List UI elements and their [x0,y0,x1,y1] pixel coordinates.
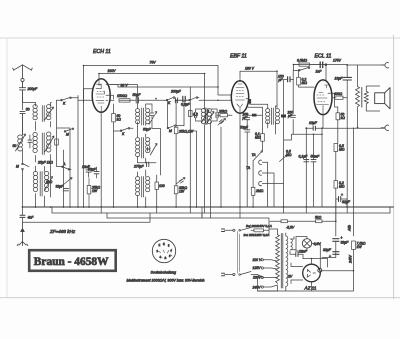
resistor 0.2M grid [297,70,315,87]
transformer output core [361,88,363,108]
switch wave change [64,128,74,137]
transformer mains primary [269,229,279,291]
capacitor 0.3uF dark [179,96,191,106]
svg-text:100V: 100V [108,69,117,73]
capacitor 200pF IF2 [287,71,296,135]
resistor 50k osc grid [112,104,121,207]
trimmer osc [176,178,185,185]
wire x306 vertical [305,128,307,207]
wire vertical x83 [83,89,85,207]
transformer IF1 top [111,85,157,137]
svg-text:EBF 11: EBF 11 [230,54,247,60]
ground earth antenna [17,222,28,245]
svg-text:16µF: 16µF [335,77,344,81]
svg-text:0,3µF: 0,3µF [181,103,191,107]
wire feedback line [284,128,322,207]
svg-text:Bei 220/240V 0,1A: Bei 220/240V 0,1A [246,224,272,228]
svg-text:K: K [168,101,171,105]
svg-text:25kΩ: 25kΩ [218,109,227,113]
wire vertical x70 [57,128,70,207]
svg-text:98 V: 98 V [121,84,129,88]
svg-text:1W: 1W [92,189,98,193]
resistor 35k 1W [174,180,187,207]
switch M wave [16,163,29,171]
wire ground bus [23,206,394,208]
svg-text:+: + [341,236,343,240]
svg-text:220V: 220V [252,275,262,279]
svg-text:Sockelschaltung: Sockelschaltung [151,271,177,275]
switch k2 [114,128,134,137]
resistor 0.1M [255,132,264,151]
svg-text:A5b: A5b [348,225,352,232]
capacitor 10uF [306,121,384,130]
jack TA3 [259,181,284,185]
tube ECL11 [314,80,332,115]
svg-text:ECH 11: ECH 11 [93,49,111,55]
wire 175V rail drop [347,65,353,236]
transformer IF1 osc [136,170,150,207]
transformer mains secondary [286,233,288,291]
wire bus2 drops [52,207,202,218]
wire lamp connections [296,237,307,252]
svg-text:600Ω: 600Ω [334,92,343,96]
svg-text:50µF: 50µF [133,93,142,97]
svg-text:180 V: 180 V [245,67,255,71]
wire bias line [270,199,336,236]
svg-text:M: M [16,165,19,169]
svg-text:Braun - 4658W: Braun - 4658W [34,256,109,268]
tube ECH11 [92,79,110,113]
svg-text:TA: TA [246,166,251,170]
svg-text:+: + [329,255,331,259]
wire vertical x196 [190,131,196,207]
svg-text:32µF: 32µF [56,185,65,189]
capacitor 250pF [242,113,250,129]
transformer output secondary [364,86,379,111]
svg-text:MΩ: MΩ [286,153,292,157]
wire vertical x190 [189,87,191,207]
svg-text:M: M [66,133,69,137]
trimmer EBF [218,119,226,208]
winding heater small [291,237,297,250]
capacitor 32uF chain [336,193,351,207]
capacitor 10nF [82,165,91,177]
capacitor 50uF screen [133,93,143,103]
capacitor padding [28,135,32,148]
mains plug upper [222,228,252,232]
resistor dark EBF [247,114,262,117]
resistor 0.2M chain [334,181,345,222]
resistor 50k [335,93,346,143]
wire vertical x160 [152,129,161,176]
transformer output primary [356,65,360,128]
wire psu bottom rail [258,271,354,291]
svg-text:MΩ: MΩ [255,136,261,140]
switch K left [57,97,79,105]
capacitor IF2 right [211,109,218,121]
svg-text:K: K [122,132,125,136]
switch mid1 [167,102,184,134]
svg-text:MΩ: MΩ [302,81,308,85]
wire 100V screen rail [99,74,205,109]
wire antenna coupling rail [23,213,151,222]
svg-text:Meßinstrument 1000Ω/V, 300V bz: Meßinstrument 1000Ω/V, 300V bzw. 30V-Ber… [127,278,205,282]
wire ECL anode [328,93,336,97]
svg-text:25kΩ,1W: 25kΩ,1W [178,130,194,134]
potentiometer arrow [280,150,292,162]
heater rail verticals [101,207,390,218]
wire x347 vertical [346,98,348,207]
resistor 0.5M chain [334,144,345,181]
wire ECH cathode down [100,112,102,207]
junction dots bus [22,206,349,208]
tube EBF11 [231,81,248,113]
nameplate Braun 4658W [29,250,116,271]
wire AZ11 circuit [291,259,328,284]
taps voltage selector [252,258,278,291]
terminal top [381,63,389,68]
resistor 25k EBF [217,109,232,116]
switch L [58,162,71,170]
wire mains rail [107,218,269,230]
svg-text:MΩ: MΩ [339,185,345,189]
fuse [244,224,272,237]
switch band [189,97,199,101]
wire ECL cathode down [322,115,324,129]
svg-text:4nF: 4nF [28,215,35,219]
capacitor 32uF psu2 [333,236,349,254]
wire ECH to osc [106,95,114,99]
transformer second bandfilter [33,132,54,197]
svg-text:1W: 1W [357,245,363,249]
transformer IF1 bottom [136,134,158,163]
transformer IF2 mid [201,108,214,218]
svg-text:51Ω: 51Ω [315,216,322,220]
svg-text:5: 5 [168,245,170,248]
svg-text:110 V: 110 V [253,258,262,262]
svg-text:240V: 240V [252,285,262,289]
junction dots lines [83,64,355,272]
capacitor 50uF AVC [240,126,250,208]
svg-text:50µF: 50µF [240,126,249,130]
resistor 600 [334,92,347,99]
resistor 10 dark [246,99,268,134]
svg-text:2V: 2V [287,275,293,279]
capacitor 4nF [20,207,34,222]
svg-text:1nF: 1nF [316,70,323,74]
mains plug lower [222,272,264,278]
wire heater rail [52,212,390,214]
antenna [13,65,32,82]
svg-text:pF: pF [278,78,284,82]
svg-text:32µF: 32µF [341,241,350,245]
capacitor 12nF [290,250,308,259]
svg-text:0,5MΩ: 0,5MΩ [297,59,308,63]
svg-text:32µF: 32µF [342,200,351,204]
resistor 1500 [117,94,130,102]
resistor 0.5M [294,59,314,67]
svg-text:50pF: 50pF [143,128,152,132]
transformer IF2 [266,106,280,134]
svg-text:M: M [169,129,172,133]
svg-text:200pF: 200pF [27,87,39,91]
resistor 51 bias1 [281,220,288,223]
resistor 0.2 mid [189,111,198,117]
capacitor 50pF series [20,108,30,135]
resistor left chain [55,139,59,145]
svg-text:+: + [341,193,343,197]
svg-text:2MΩ: 2MΩ [255,189,264,193]
svg-text:ECL 11: ECL 11 [315,54,332,60]
svg-text:0,1µF: 0,1µF [299,155,309,159]
resistor 7.5k 1W [352,241,366,250]
wire 76V anode rail [84,65,385,103]
svg-text:Bei 150/125V 0,8A: Bei 150/125V 0,8A [244,233,270,237]
capacitor 50uF cathode [88,167,99,178]
transformer input bandfilter [33,103,54,131]
wire antenna line lower [22,150,24,207]
svg-text:1500Ω: 1500Ω [117,94,128,98]
wire vertical x57 [57,100,59,166]
svg-text:2: 2 [157,250,159,253]
svg-text:50mF: 50mF [311,155,321,159]
capacitor 32uF cathode [56,185,69,191]
capacitor 200pF antenna [20,82,39,103]
svg-text:MΩ: MΩ [339,148,345,152]
coil ferrite rod [13,134,26,151]
terminal bottom [381,125,389,130]
svg-text:25pF 1kΩ: 25pF 1kΩ [37,161,53,165]
wire EBF cathode [239,113,241,207]
switch band k [166,97,175,105]
switch TA [252,151,263,161]
capacitor 275pF [133,162,156,168]
svg-text:10µF: 10µF [309,121,318,125]
socket diagram circle [152,239,175,262]
wire ECH anode out [106,84,111,86]
wire AVC line [110,99,232,101]
capacitor IF2 left [195,109,202,121]
svg-text:1W: 1W [179,190,185,194]
svg-text:AZ 11: AZ 11 [304,286,317,291]
svg-text:50: 50 [13,144,17,148]
svg-text:275pF: 275pF [133,165,145,169]
capacitor 200uF [170,90,182,103]
svg-text:K: K [63,101,66,105]
junction dots rails [305,64,358,129]
svg-text:6kΩ: 6kΩ [46,180,53,184]
capacitor 0.1uF [299,155,309,162]
svg-text:6,3V: 6,3V [314,242,322,246]
wire mains link [238,232,240,274]
svg-text:50µF: 50µF [88,168,97,172]
wire 98V rail [111,85,219,87]
svg-text:7: 7 [171,250,173,253]
jack TA2 [259,171,274,207]
trimmer osc right [63,178,72,186]
svg-text:12nF: 12nF [299,250,308,254]
speaker [375,88,390,109]
resistor 100 [155,175,165,207]
transformer mains core [281,234,283,289]
wire B+ down [322,250,354,271]
tube AZ11 [303,264,321,282]
svg-text:100: 100 [159,184,165,188]
svg-text:L: L [64,162,66,166]
svg-text:76V: 76V [150,61,157,65]
svg-text:32µF: 32µF [323,248,332,252]
wire x283 vertical [283,80,285,208]
switch tone [294,65,310,71]
capacitor 32uF psu3 [322,248,339,259]
resistor 25k 1W mid [174,101,194,180]
capacitor 1nF [314,62,327,80]
svg-text:ZF=468 kHz: ZF=468 kHz [49,229,76,234]
wire vertical x167 [167,100,169,128]
wire vertical x78 [77,96,79,208]
lamp pilot [302,239,321,268]
svg-text:175V: 175V [333,59,342,63]
svg-text:125V: 125V [253,266,262,270]
resistor 25k 1W [87,178,100,207]
jack TA1 [259,160,268,207]
wire vertical x63 [63,150,65,207]
svg-text:8: 8 [169,255,171,258]
resistor 2M [251,161,263,208]
svg-text:kΩ: kΩ [117,118,122,122]
resistor 51 bias2 [315,216,322,223]
wire EBF anode top [240,71,277,107]
capacitor 50mF [311,134,321,207]
svg-text:50: 50 [26,108,30,112]
capacitor 30pF dark [281,115,286,118]
wire grid line ECH [78,89,92,101]
oscillator coils [33,161,53,208]
capacitor 16uF [335,65,352,98]
svg-text:245V: 245V [349,254,353,264]
capacitor 150pF [278,75,294,83]
svg-text:kΩ: kΩ [341,116,346,120]
svg-text:200µF: 200µF [170,90,182,94]
svg-text:-5,5V: -5,5V [286,226,295,230]
svg-text:TA: TA [252,153,257,157]
wire antenna node [23,103,36,110]
